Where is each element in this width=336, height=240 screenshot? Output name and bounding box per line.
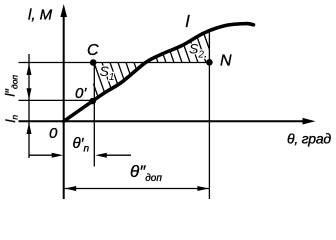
svg-text:θ, град: θ, град [287, 131, 331, 147]
y-axis arrowhead [60, 4, 67, 17]
hatch S1 and S2 [93, 33, 209, 97]
vertical line below C/O' [93, 63, 95, 167]
svg-text:0': 0' [75, 85, 87, 102]
curve l [64, 24, 254, 122]
In level line [19, 99, 93, 101]
svg-text:C: C [87, 42, 99, 59]
dim arrow down at In line [27, 88, 32, 100]
svg-text:N: N [220, 53, 232, 70]
theta''dop dimension line [65, 188, 209, 190]
point N [206, 59, 213, 66]
svg-text:0: 0 [49, 125, 58, 142]
svg-text:l, M: l, M [28, 7, 53, 24]
x-axis [19, 120, 307, 122]
vertical line through N [208, 30, 210, 200]
y-axis [63, 13, 65, 199]
point O' [89, 98, 96, 105]
left dimension line [28, 54, 30, 158]
theta'n dimension left arrow [30, 154, 54, 156]
dim arrow up at I''dop line [27, 64, 32, 76]
theta'n dimension right arrow [106, 154, 131, 156]
dim arrow up below x-axis [27, 123, 32, 135]
point C [90, 59, 97, 66]
x-axis arrowhead [303, 118, 316, 125]
I''dop level line [19, 62, 210, 64]
